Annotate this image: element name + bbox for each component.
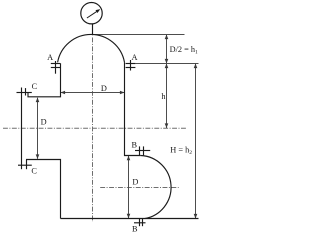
svg-text:D/2 = h1: D/2 = h1 (170, 45, 198, 56)
svg-text:D: D (101, 84, 107, 93)
svg-text:C: C (31, 166, 37, 175)
svg-text:B: B (132, 224, 138, 232)
svg-text:H = h2: H = h2 (170, 146, 192, 157)
svg-text:D: D (132, 177, 138, 186)
svg-text:A: A (132, 53, 138, 62)
svg-text:D: D (41, 118, 47, 127)
svg-text:A: A (47, 53, 53, 62)
svg-text:B: B (132, 141, 138, 150)
svg-text:C: C (32, 82, 38, 91)
svg-text:h: h (161, 92, 166, 101)
